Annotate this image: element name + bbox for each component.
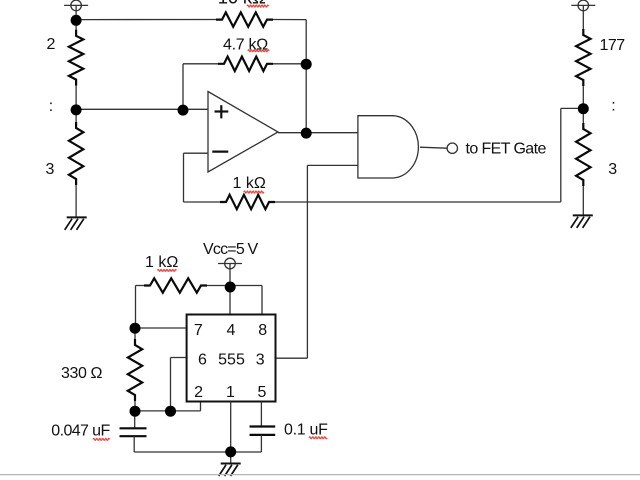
svg-text:3: 3 — [46, 161, 55, 178]
wire: right divider middle — [582, 86, 584, 123]
IC U2 555 timer box — [187, 315, 276, 402]
wire: 4.7k left lead — [183, 63, 218, 65]
svg-text:4: 4 — [227, 322, 236, 339]
wire: Vcc node to pin 8 — [230, 285, 262, 287]
svg-text:2: 2 — [47, 36, 56, 53]
wire: left column top — [75, 20, 77, 31]
wire: 4.7k right lead — [273, 63, 306, 65]
wire: left node to op-amp + input — [76, 108, 208, 110]
capacitor 0.047 uF — [134, 411, 136, 428]
capacitor 0.1 uF — [260, 402, 262, 427]
svg-text:177: 177 — [600, 37, 626, 54]
spell-check squiggles — [247, 5, 269, 7]
svg-text:8: 8 — [258, 322, 267, 339]
resistor 1 kOhm (555 charge) — [136, 285, 145, 287]
wire: op-amp output to gate input A — [278, 132, 358, 134]
svg-text:0.047 uF: 0.047 uF — [51, 423, 110, 440]
wire: 1k to right divider node — [275, 201, 561, 203]
wire: 1k op-amp left lead — [184, 201, 221, 203]
svg-text:6: 6 — [198, 352, 207, 369]
svg-text::: : — [611, 97, 615, 114]
wire: pin 6 — [171, 357, 187, 359]
junction dots — [71, 15, 82, 26]
wire: left divider to ground — [75, 109, 77, 122]
svg-text:7: 7 — [194, 322, 203, 339]
wire: feedback vertical bus x=306 — [305, 20, 307, 133]
svg-text:1 kΩ: 1 kΩ — [233, 175, 266, 192]
wire: right divider to ground — [582, 186, 584, 216]
wire: gate output — [420, 147, 447, 148]
wire: left divider middle — [75, 86, 77, 110]
svg-text:3: 3 — [256, 352, 265, 369]
ground left — [67, 216, 87, 218]
resistor 4.7 kOhm — [218, 57, 273, 71]
op-amp U1 comparator — [208, 92, 278, 173]
wire: pin 1 to ground rail — [230, 402, 232, 453]
svg-text:to FET Gate: to FET Gate — [466, 141, 547, 158]
wire: 555 out riser to gate input B — [307, 164, 358, 166]
power symbol V+ left — [71, 0, 82, 11]
wire: Vcc to pin 4 — [229, 264, 231, 315]
ground right — [573, 214, 593, 216]
svg-text:1: 1 — [226, 384, 235, 401]
wire: 4.7k corner down to noninverting node — [182, 64, 184, 110]
svg-text:Vcc=5 V: Vcc=5 V — [203, 241, 259, 258]
resistor ratio 2 (left divider top) — [69, 30, 83, 86]
resistor 330 Ohm — [134, 328, 136, 340]
svg-text:3: 3 — [608, 161, 617, 178]
resistor ratio 3 (left divider bottom) — [69, 122, 83, 185]
wire: pin 7 — [135, 327, 187, 329]
wire: bottom rail — [134, 451, 261, 453]
resistor 10 kOhm — [216, 12, 273, 26]
wire: pin 2 — [200, 402, 202, 411]
svg-text:1 kΩ: 1 kΩ — [145, 254, 178, 271]
wire: 1k left corner down to pin7 node — [135, 286, 137, 329]
power symbol V+ right — [578, 0, 589, 11]
resistor ratio 177 (right divider top) — [576, 29, 590, 86]
AND gate U3 — [358, 116, 418, 178]
output terminal circle — [447, 143, 457, 153]
resistor 1 kOhm (hysteresis) — [220, 195, 275, 209]
svg-text:330 Ω: 330 Ω — [61, 365, 103, 382]
ground 555 — [221, 463, 241, 465]
power symbol Vcc 555 — [225, 258, 236, 269]
svg-text:5: 5 — [258, 384, 267, 401]
resistor ratio 3 (right divider bottom) — [576, 123, 590, 186]
wire: op-amp inverting input feedback — [184, 152, 209, 154]
svg-text::: : — [49, 98, 53, 115]
svg-text:0.1 uF: 0.1 uF — [284, 421, 328, 438]
svg-text:555: 555 — [218, 352, 245, 369]
wire: 10k to right vertical — [273, 19, 306, 21]
wire: ground stub 555 — [230, 452, 232, 464]
svg-text:2: 2 — [194, 384, 203, 401]
wire: 10k top rail from left node — [81, 19, 216, 21]
slide bottom edge line — [0, 474, 640, 476]
